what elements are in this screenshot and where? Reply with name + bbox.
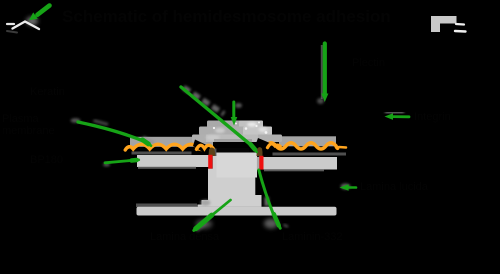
cytoplasm shading band right	[279, 136, 336, 146]
icon TR white dash 1	[456, 23, 464, 26]
svg-text:Laminin-332: Laminin-332	[282, 231, 343, 243]
white glyph TL	[7, 23, 14, 25]
plaque highlight center	[247, 122, 257, 126]
arrow tiny-right	[348, 186, 356, 189]
plaque highlight inner-left	[206, 135, 220, 141]
arrow shadow TL	[26, 17, 38, 26]
column step corner shadow	[201, 200, 211, 206]
plasma membrane bar left	[137, 155, 209, 167]
plasma membrane bar right	[263, 157, 337, 170]
membrane dark top line right	[273, 153, 347, 156]
anchoring column	[198, 153, 262, 207]
integrin collar right	[257, 147, 263, 156]
arrow shadow left-horizontal tail	[103, 163, 110, 167]
plaque highlight spots	[213, 122, 268, 134]
arrow left-horizontal (to membrane)	[105, 160, 133, 163]
channel right shade	[257, 157, 259, 170]
cytoplasm shading band left	[130, 137, 213, 147]
keratin filament left	[125, 144, 201, 150]
arrow shadow center-vertical	[235, 103, 242, 108]
channel left dark edge	[214, 149, 216, 157]
arrow right-horizontal	[392, 115, 409, 118]
plaque tier 1 light right	[239, 121, 263, 128]
arrow right-long (down to basement)	[259, 170, 274, 215]
icon TR gray block	[431, 16, 457, 32]
dark wing left	[193, 140, 216, 157]
plaque tier 2 light right	[243, 127, 272, 136]
plaque capital tier 2	[199, 127, 272, 136]
membrane bottom shadow left	[138, 167, 196, 169]
integrin right (red)	[259, 156, 263, 170]
arrow shadow right-vertical head	[317, 98, 324, 104]
keratin tip dash right	[339, 146, 346, 149]
svg-text:Lamina densa: Lamina densa	[150, 231, 220, 243]
arrow left-diagonal (to keratin)	[94, 121, 109, 125]
arrow shadow long-diagonal	[184, 88, 225, 115]
keratin hook right	[268, 144, 281, 148]
arrow shadow right-horizontal	[385, 111, 404, 114]
arrow center-vertical (to plaque)	[232, 102, 235, 120]
column light interior	[217, 153, 258, 178]
membrane dark top line left	[132, 152, 192, 155]
svg-text:BP180: BP180	[30, 154, 63, 166]
plaque highlight left	[215, 128, 225, 133]
channel right dark gap	[257, 152, 259, 157]
integrin collar left	[209, 147, 216, 156]
svg-text:Plectin: Plectin	[352, 57, 385, 69]
plaque capital tier 3	[192, 135, 282, 143]
arrow shadow right-long head	[264, 219, 278, 229]
svg-text:Plasma: Plasma	[2, 113, 40, 125]
svg-text:Lamina lucida: Lamina lucida	[360, 181, 429, 193]
svg-text:Integrin: Integrin	[414, 111, 451, 123]
svg-text:Keratin: Keratin	[30, 86, 65, 98]
keratin hook left	[197, 145, 215, 150]
icon TR white dash 2	[455, 30, 466, 33]
arrow shadow left-diagonal tail	[71, 118, 81, 123]
plaque shade under tier2	[214, 139, 252, 142]
channel top dark slot	[217, 148, 250, 152]
arrow right-vertical (to membrane right)	[321, 45, 323, 99]
membrane bottom shadow right	[264, 169, 324, 171]
arrow shadow tiny-right	[341, 184, 351, 190]
plaque highlight right	[259, 127, 268, 132]
svg-text:Schematic of hemidesmosome adh: Schematic of hemidesmosome adhesion	[62, 7, 391, 26]
arrow bottom-center (down-left)	[213, 200, 231, 215]
arrow shadow right-long upper	[265, 197, 270, 206]
integrin left (red)	[208, 155, 212, 169]
arrow shadow bottom-center head	[196, 219, 213, 229]
arrow TL	[38, 6, 50, 15]
basement membrane bar	[137, 207, 337, 216]
arrow long-diagonal (to integrin)	[181, 87, 253, 146]
keratin filament right	[263, 143, 338, 149]
plaque tier 3 light mid	[206, 135, 258, 143]
svg-text:membrane: membrane	[2, 125, 55, 137]
plaque capital tier 1	[207, 121, 263, 128]
basement membrane dark top line left	[136, 204, 197, 208]
dark wing right	[254, 138, 277, 153]
